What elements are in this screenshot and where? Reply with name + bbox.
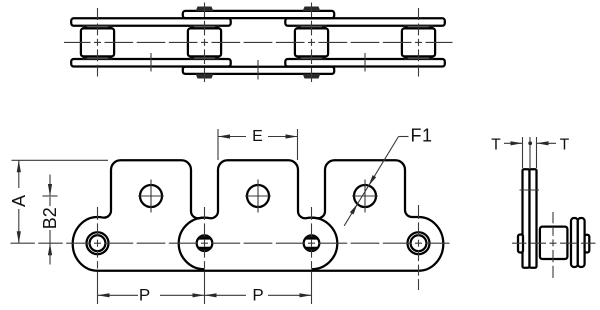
dim A line: [18, 160, 20, 188]
dim E line + arrows: [218, 136, 246, 138]
end view vertical centerline: [552, 212, 554, 278]
pin2 flats (filled segments): [198, 235, 211, 251]
pin vertical centerline (top view): [204, 3, 206, 83]
inner link plate, bottom-right span: [285, 59, 445, 67]
flange pin top: [297, 26, 325, 29]
outer link plate, bottom middle: [183, 67, 334, 74]
flange pin top: [404, 26, 432, 29]
flange end caps: [83, 26, 87, 29]
bushing circle pin1: [90, 235, 106, 251]
svg-text:T: T: [560, 136, 570, 153]
tab1 hole: [140, 185, 162, 207]
attachment plate (inner, with tab): [530, 169, 537, 267]
dim A extension line (tab top): [12, 159, 109, 161]
flange pin bottom: [297, 56, 325, 59]
pin2 head top: [196, 7, 214, 12]
tab1 hole cross: [138, 180, 164, 213]
rollers (top view): [81, 28, 435, 56]
outer link plate, top middle: [183, 11, 334, 18]
right pin stub: [585, 235, 590, 253]
right inner plate: [578, 218, 585, 267]
inner link plate, bottom-left span: [71, 59, 231, 67]
tab3 hole: [354, 185, 376, 207]
svg-text:P: P: [139, 286, 150, 305]
flange pin bottom: [404, 56, 432, 59]
pin3 flats (filled segments): [305, 235, 318, 251]
roller pin1: [81, 28, 114, 56]
tab hole tick: [520, 189, 540, 191]
svg-text:B2: B2: [40, 207, 60, 229]
dim E extension lines: [217, 129, 219, 160]
flange pin bottom: [83, 56, 111, 59]
roller (end view): [540, 227, 568, 259]
tab2 hole cross: [245, 180, 271, 213]
tab2 hole: [247, 185, 269, 207]
svg-text:T: T: [491, 136, 501, 153]
dim B2 extension line (hole center): [43, 195, 58, 197]
dim T arrows: [504, 142, 523, 144]
hole axis tick span3: [364, 53, 366, 72]
pin vertical centerline (side view): [418, 205, 420, 290]
right outer plate: [571, 218, 578, 267]
horizontal centerline (top view): [64, 41, 453, 43]
bushing circle pin2: [197, 235, 213, 251]
dim T extension lines: [522, 137, 524, 168]
roller pin2: [188, 28, 221, 56]
svg-text:E: E: [252, 128, 263, 145]
inner link plate, top-right span: [285, 18, 445, 26]
roller pin3: [295, 28, 328, 56]
main horizontal centerline (side view): [11, 242, 450, 244]
attachment plate (outer, with tab): [523, 169, 530, 267]
centerlines top view: [64, 3, 453, 83]
plate-end arc at pin2: [179, 218, 205, 270]
bushing circle pin4: [411, 235, 427, 251]
pin2 head bottom: [196, 74, 214, 79]
roller circle pin4: [408, 232, 430, 254]
dim P2 line: [205, 294, 247, 296]
pin vertical centerline (side view): [311, 207, 313, 269]
inner link plate, top-left span: [71, 18, 231, 26]
svg-text:A: A: [9, 195, 29, 207]
roller circle pin1: [87, 232, 109, 254]
pin3 head bottom: [303, 74, 321, 79]
dim P1 line: [98, 294, 139, 296]
pin vertical centerline (side view): [204, 207, 206, 269]
chain outline with attachment tabs: [73, 160, 444, 270]
pin vertical centerline (top view): [97, 8, 99, 77]
pin vertical centerline (top view): [311, 3, 313, 83]
svg-text:F1: F1: [411, 126, 433, 146]
hole axis tick span1: [150, 53, 152, 72]
end view horizontal centerline: [512, 242, 596, 244]
dim P extension lines: [97, 272, 99, 304]
plate-end arc at pin3: [312, 218, 338, 270]
pin vertical centerline (side view): [97, 207, 99, 269]
pin3 head top: [303, 7, 321, 12]
pin vertical centerline (top view): [418, 8, 420, 77]
dim F1 leader: [399, 136, 409, 138]
dim B2 line with outside arrows: [49, 175, 51, 197]
flange pin bottom: [190, 56, 218, 59]
bushing circle pin3: [304, 235, 320, 251]
left pin stub: [518, 235, 523, 253]
svg-text:P: P: [252, 286, 263, 305]
hole axis tick span2: [257, 60, 259, 80]
pin heads at pins 2,3 (top view): [196, 7, 321, 79]
flange pin top: [83, 26, 111, 29]
roller pin4: [402, 28, 435, 56]
bushing flanges (top view): [83, 26, 433, 59]
tab3 hole cross: [352, 180, 378, 213]
flange pin top: [190, 26, 218, 29]
